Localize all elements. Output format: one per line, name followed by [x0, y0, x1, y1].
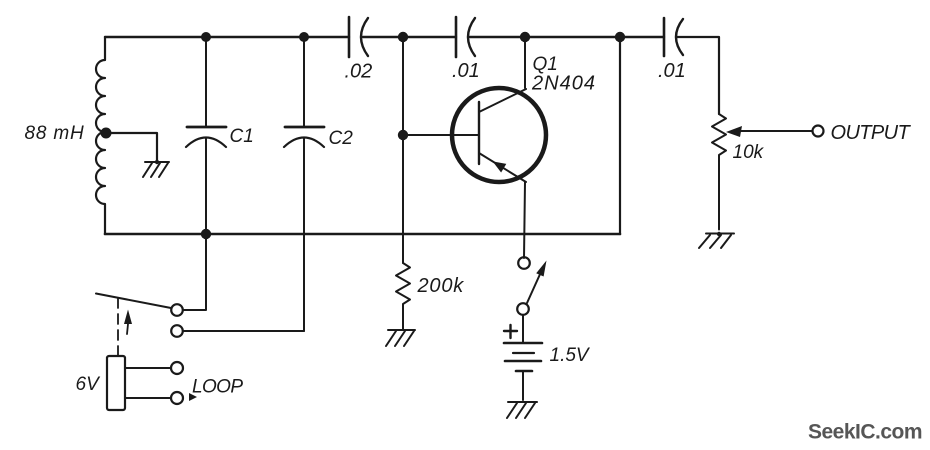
terminal loop upper [171, 362, 183, 374]
svg-text:6V: 6V [76, 374, 102, 395]
svg-text:.01: .01 [658, 60, 686, 82]
svg-text:SeekIC.com: SeekIC.com [808, 421, 922, 444]
svg-text:200k: 200k [417, 275, 465, 297]
ground coil tap [143, 160, 169, 177]
switch S1 lower contact [171, 325, 183, 337]
wire upper switch contact to bottom rail [183, 239, 206, 310]
inductor L1 88 mH [96, 37, 105, 234]
wire emitter lead [524, 182, 525, 258]
svg-text:.01: .01 [452, 60, 480, 82]
switch S1 actuation arrow [124, 310, 132, 335]
terminal OUTPUT [813, 126, 824, 137]
capacitor .02 [349, 17, 368, 57]
svg-text:1.5V: 1.5V [550, 345, 591, 366]
capacitor .01 output [664, 18, 683, 56]
node collector junction [520, 32, 530, 42]
switch S1 blade [96, 294, 171, 309]
label LOOP [189, 377, 243, 402]
wire base lead [403, 134, 478, 136]
transistor Q1 [452, 88, 546, 182]
wire right branch vertical [619, 37, 621, 234]
wire top rail segment 1 [105, 36, 349, 38]
wire switch to battery [522, 315, 524, 342]
wire lower switch contact to C2 line [183, 330, 304, 332]
svg-text:LOOP: LOOP [192, 377, 243, 398]
battery B1 6V box [107, 356, 125, 410]
wire coil tap to ground [106, 133, 157, 161]
ground under 200k [386, 330, 415, 346]
svg-text:88 mH: 88 mH [25, 123, 85, 144]
svg-text:.02: .02 [345, 61, 373, 83]
terminal loop lower [171, 392, 183, 404]
wire top rail segment 3 [470, 36, 664, 38]
capacitor .01 first [456, 17, 475, 57]
ground under potentiometer [699, 232, 734, 248]
resistor R1 200k [396, 263, 410, 330]
node coil tap [101, 128, 112, 139]
capacitor C2 [284, 37, 324, 331]
wire loop terminal lower [125, 397, 170, 399]
wire top rail segment 4 [677, 37, 719, 114]
node right branch junction [615, 32, 625, 42]
switch S1 upper contact [171, 304, 183, 316]
ground under battery [507, 402, 537, 418]
capacitor C1 [186, 37, 226, 234]
switch S1 linkage dashed [117, 298, 119, 355]
label battery plus [504, 325, 517, 338]
svg-text:10k: 10k [733, 142, 765, 163]
node base-cap junction [398, 32, 408, 42]
node bottom rail junction [201, 229, 211, 239]
wire loop terminal upper [125, 367, 170, 369]
potentiometer R2 10k [712, 114, 726, 230]
wire base branch vertical [402, 37, 404, 263]
switch S2 blade with arrow [527, 261, 547, 304]
node C1 top junction [201, 32, 211, 42]
wiper arrow and output wire [726, 126, 812, 137]
svg-text:2N404: 2N404 [531, 73, 596, 95]
node C2 top junction [299, 32, 309, 42]
svg-text:C1: C1 [230, 126, 254, 147]
wire bottom rail [105, 233, 620, 236]
switch S2 lower contact [517, 303, 529, 315]
switch S2 upper contact [518, 257, 530, 269]
node base junction [398, 130, 408, 140]
wire collector lead [524, 37, 526, 88]
svg-text:OUTPUT: OUTPUT [831, 122, 912, 144]
wire top rail segment 2 [363, 36, 456, 38]
svg-text:C2: C2 [329, 128, 354, 149]
battery B2 1.5V [504, 343, 542, 400]
